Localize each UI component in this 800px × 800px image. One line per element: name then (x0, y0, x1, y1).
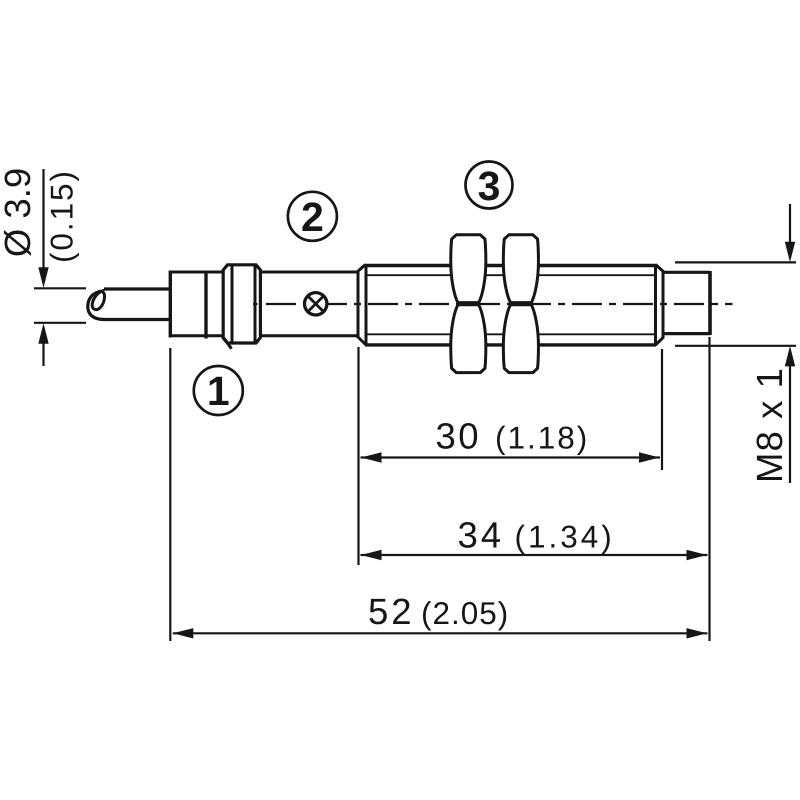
callout 3 (466, 162, 513, 209)
svg-text:52: 52 (368, 591, 415, 632)
dia 3.9 dim line (42, 169, 44, 366)
thread crest bottom (365, 343, 656, 346)
callout 2 (288, 192, 337, 241)
svg-text:Ø 3.9: Ø 3.9 (0, 168, 38, 257)
sensor rear body outline (170, 272, 356, 336)
cable end curl (92, 290, 104, 309)
svg-text:30: 30 (436, 416, 482, 457)
svg-text:(1.18): (1.18) (495, 420, 589, 456)
dim line 34 (361, 554, 708, 556)
collar facet line left (231, 266, 234, 342)
M8 dim line (789, 204, 791, 483)
svg-text:1: 1 (207, 368, 230, 414)
collar bottom-left chamfer tail (224, 338, 232, 349)
svg-text:(0.15): (0.15) (44, 171, 80, 263)
svg-text:M8 x 1: M8 x 1 (749, 368, 790, 483)
extension line thread end (661, 349, 663, 470)
sensing tip (664, 272, 710, 333)
dia 3.9 tick top (34, 287, 86, 289)
rear cap left edge (169, 271, 172, 338)
callout 1 (194, 366, 243, 415)
extension line barrel start (357, 347, 359, 565)
svg-text:34: 34 (458, 514, 505, 555)
M8 extension bottom (675, 345, 796, 347)
hex nut 1 (451, 235, 486, 373)
extension line tip end (708, 337, 710, 641)
thread root bottom (366, 333, 655, 335)
hex nut 2 (503, 235, 538, 373)
cable (88, 289, 170, 320)
thread start face (357, 264, 366, 346)
rear cap right edge (204, 271, 207, 339)
centerline (253, 303, 258, 305)
svg-text:(1.34): (1.34) (515, 518, 615, 554)
collar hex ring (223, 265, 260, 343)
svg-text:3: 3 (478, 163, 501, 209)
dia 3.9 tick bottom (34, 322, 86, 324)
thread crest top (365, 264, 656, 267)
M8 extension top (675, 261, 796, 263)
LED indicator (305, 293, 327, 315)
svg-text:(2.05): (2.05) (421, 595, 509, 631)
dim line 52 (173, 632, 708, 634)
collar facet line right (254, 266, 257, 342)
thread root top (366, 274, 655, 276)
extension line left 52 (169, 348, 171, 641)
dim line 30 (361, 456, 661, 458)
svg-text:2: 2 (301, 194, 324, 240)
thread end face (656, 264, 664, 346)
tip end face (708, 271, 712, 335)
